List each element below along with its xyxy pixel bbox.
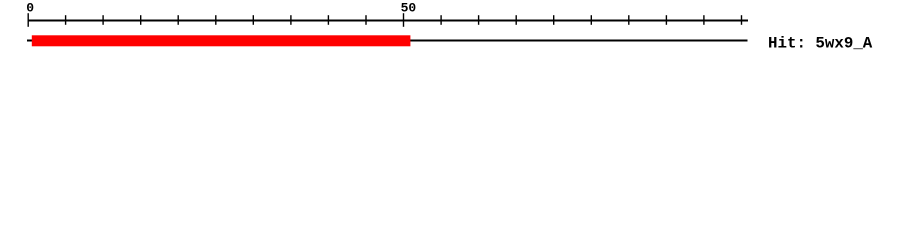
ruler tick 35 <box>290 15 292 25</box>
alignment red bar <box>32 35 411 46</box>
svg-text:0: 0 <box>26 0 34 15</box>
ruler tick 20 <box>177 15 179 25</box>
ruler tick 55 <box>440 15 442 25</box>
ruler tick 80 <box>628 15 630 25</box>
ruler tick 10 <box>102 15 104 25</box>
ruler tick 60 <box>478 15 480 25</box>
ruler tick 85 <box>665 15 667 25</box>
ruler tick 70 <box>553 15 555 25</box>
ruler tick 45 <box>365 15 367 25</box>
ruler major tick 0 <box>27 13 29 27</box>
ruler tick 65 <box>515 15 517 25</box>
svg-text:50: 50 <box>401 0 417 15</box>
ruler tick 75 <box>590 15 592 25</box>
ruler axis line <box>28 20 748 22</box>
ruler tick 30 <box>252 15 254 25</box>
ruler tick 5 <box>65 15 67 25</box>
ruler tick 25 <box>215 15 217 25</box>
query line <box>27 40 748 42</box>
ruler tick 15 <box>140 15 142 25</box>
ruler tick 90 <box>703 15 705 25</box>
ruler major tick 50 <box>403 13 405 27</box>
svg-text:Hit: 5wx9_A: Hit: 5wx9_A <box>768 34 873 52</box>
ruler tick 40 <box>327 15 329 25</box>
ruler tick 95 <box>741 15 743 25</box>
